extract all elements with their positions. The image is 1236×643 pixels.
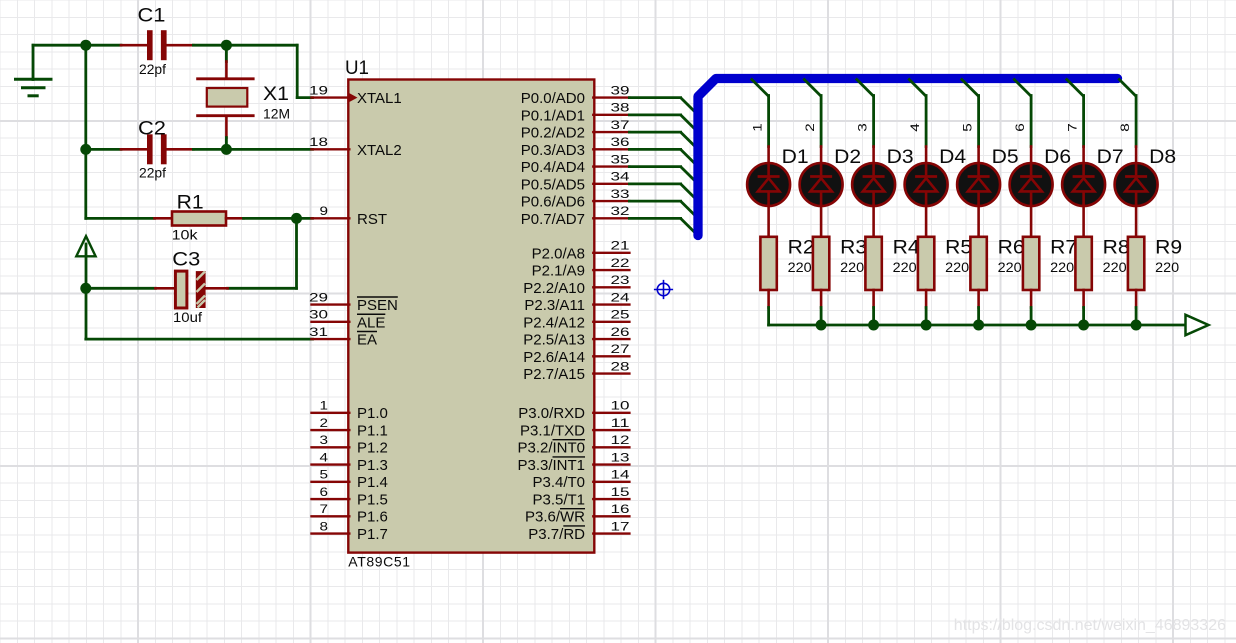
wire P0.5 to bus — [629, 184, 698, 201]
svg-text:19: 19 — [309, 83, 328, 97]
svg-text:P0.4/AD4: P0.4/AD4 — [521, 159, 585, 176]
pin 29 PSEN — [309, 290, 398, 314]
svg-text:2: 2 — [320, 416, 329, 430]
svg-text:P2.1/A9: P2.1/A9 — [532, 263, 585, 280]
svg-text:P1.2: P1.2 — [357, 440, 388, 457]
svg-text:220: 220 — [840, 259, 864, 275]
svg-text:220: 220 — [1155, 259, 1179, 275]
svg-text:1: 1 — [320, 399, 329, 413]
svg-text:10uf: 10uf — [173, 309, 202, 325]
wire bus branch to D2 — [803, 79, 821, 147]
svg-text:7: 7 — [320, 502, 329, 516]
wire node B down to XTAL1 pin — [297, 45, 312, 97]
svg-text:EA: EA — [357, 332, 377, 349]
bus (blue) — [698, 79, 1118, 236]
diode (LED) D1 — [747, 146, 809, 207]
svg-text:18: 18 — [309, 135, 328, 149]
pin 5 P1.4 — [312, 468, 388, 492]
wire rail to C2 — [86, 148, 147, 151]
svg-text:P2.4/A12: P2.4/A12 — [523, 314, 585, 331]
pin 36 P0.3/AD3 — [521, 135, 630, 159]
svg-text:D5: D5 — [992, 146, 1019, 168]
capacitor C3 10uf (electrolytic) — [172, 249, 205, 326]
wire left rail — [84, 45, 87, 218]
svg-text:P0.3/AD3: P0.3/AD3 — [521, 142, 585, 159]
pin 16 P3.6/WR — [525, 502, 630, 526]
wire C2 to XTAL2 pin — [167, 148, 313, 151]
svg-text:C3: C3 — [172, 249, 200, 271]
svg-text:R4: R4 — [893, 237, 920, 259]
wire P0.1 to bus — [629, 115, 698, 132]
svg-text:R8: R8 — [1103, 237, 1130, 259]
svg-text:26: 26 — [611, 325, 630, 339]
svg-text:D6: D6 — [1044, 146, 1071, 168]
svg-text:P2.7/A15: P2.7/A15 — [523, 366, 585, 383]
wire P0.7 to bus — [629, 218, 698, 235]
pin 27 P2.6/A14 — [523, 342, 630, 366]
svg-text:P0.1/AD1: P0.1/AD1 — [521, 107, 585, 124]
svg-text:31: 31 — [309, 325, 328, 339]
wire R9 to rail — [1135, 290, 1138, 325]
op-amp U1 AT89C51 microcontroller body — [345, 57, 594, 570]
svg-text:RST: RST — [357, 211, 387, 228]
svg-text:10k: 10k — [172, 227, 199, 243]
svg-text:1: 1 — [751, 123, 765, 132]
diode (LED) D2 — [800, 146, 862, 207]
diode (LED) D8 — [1115, 146, 1177, 207]
svg-text:C2: C2 — [138, 118, 166, 140]
svg-text:P3.5/T1: P3.5/T1 — [532, 491, 585, 508]
junction rail/D5 column — [973, 320, 984, 331]
junction RST node — [291, 213, 302, 224]
pin 12 P3.2/INT0 — [517, 433, 629, 457]
wire bus branch to D8 — [1118, 79, 1136, 147]
resistor R8 220 — [1075, 237, 1129, 291]
wire ground to C1 — [33, 44, 147, 47]
junction C3/power rail — [80, 283, 91, 294]
svg-text:AT89C51: AT89C51 — [348, 554, 410, 570]
pin 3 P1.2 — [312, 433, 388, 457]
wire P0.0 to bus — [629, 98, 698, 115]
svg-text:D4: D4 — [939, 146, 966, 168]
resistor R7 220 — [1023, 237, 1077, 291]
wire bus branch to D5 — [961, 79, 979, 147]
pin 17 P3.7/RD — [528, 519, 630, 543]
crystal X1 12M — [198, 45, 290, 149]
svg-text:6: 6 — [1013, 123, 1027, 132]
diode (LED) D6 — [1010, 146, 1072, 207]
svg-text:https://blog.csdn.net/weixin_4: https://blog.csdn.net/weixin_46893326 — [954, 617, 1226, 634]
svg-text:220: 220 — [1103, 259, 1127, 275]
wire D8 to R9 — [1135, 205, 1138, 238]
svg-text:220: 220 — [788, 259, 812, 275]
svg-text:220: 220 — [998, 259, 1022, 275]
svg-text:15: 15 — [611, 485, 630, 499]
svg-text:28: 28 — [611, 359, 630, 373]
wire D4 to R5 — [925, 205, 928, 238]
wire bus branch to D6 — [1013, 79, 1031, 147]
wire R3 to rail — [820, 290, 823, 325]
junction rail/D7 column — [1078, 320, 1089, 331]
svg-text:P0.0/AD0: P0.0/AD0 — [521, 90, 585, 107]
svg-text:12M: 12M — [263, 106, 290, 122]
svg-text:14: 14 — [611, 468, 630, 482]
wire D6 to R7 — [1030, 205, 1033, 238]
svg-text:P2.0/A8: P2.0/A8 — [532, 245, 585, 262]
capacitor C2 — [138, 118, 167, 181]
junction rail/D8 column — [1131, 320, 1142, 331]
svg-text:12: 12 — [611, 433, 630, 447]
pin 8 P1.7 — [312, 519, 388, 543]
pin 21 P2.0/A8 — [532, 239, 630, 263]
svg-text:10: 10 — [611, 399, 630, 413]
svg-text:7: 7 — [1066, 123, 1080, 132]
pin 19 XTAL1 — [309, 83, 402, 107]
wire P0.6 to bus — [629, 201, 698, 218]
svg-text:P1.4: P1.4 — [357, 474, 388, 491]
svg-text:30: 30 — [309, 308, 328, 322]
wire RST node down to C3 — [207, 218, 297, 288]
svg-text:XTAL1: XTAL1 — [357, 90, 402, 107]
pin 26 P2.5/A13 — [523, 325, 630, 349]
pin 6 P1.5 — [312, 485, 388, 509]
capacitor C1 — [138, 5, 167, 78]
diode (LED) D4 — [905, 146, 967, 207]
junction rail/C2 — [80, 144, 91, 155]
wire R4 to rail — [872, 290, 875, 325]
svg-text:P3.3/INT1: P3.3/INT1 — [517, 457, 585, 474]
resistor R9 220 — [1128, 237, 1182, 291]
wire bottom rail — [769, 324, 1185, 327]
pin 9 RST — [312, 204, 388, 228]
svg-text:C1: C1 — [138, 5, 166, 27]
svg-text:P2.2/A10: P2.2/A10 — [523, 280, 585, 297]
svg-text:P0.5/AD5: P0.5/AD5 — [521, 176, 585, 193]
svg-text:21: 21 — [611, 239, 630, 253]
wire VCC to EA pin — [86, 338, 313, 341]
pin 34 P0.5/AD5 — [521, 170, 630, 194]
pin 22 P2.1/A9 — [532, 256, 630, 280]
svg-text:25: 25 — [611, 308, 630, 322]
svg-text:39: 39 — [611, 83, 630, 97]
svg-text:PSEN: PSEN — [357, 297, 398, 314]
resistor R1 10k — [172, 192, 226, 243]
wire D1 to R2 — [767, 205, 770, 238]
junction crystal bottom — [221, 144, 232, 155]
svg-text:9: 9 — [320, 204, 329, 218]
svg-text:P3.0/RXD: P3.0/RXD — [518, 405, 585, 422]
pin 1 P1.0 — [312, 399, 388, 423]
pin 37 P0.2/AD2 — [521, 118, 630, 142]
svg-text:23: 23 — [611, 273, 630, 287]
pin 31 EA — [309, 325, 377, 349]
svg-text:P0.2/AD2: P0.2/AD2 — [521, 125, 585, 142]
svg-text:22pf: 22pf — [139, 165, 166, 181]
wire D5 to R6 — [977, 205, 980, 238]
svg-text:22: 22 — [611, 256, 630, 270]
svg-text:35: 35 — [611, 152, 630, 166]
node A junction — [80, 40, 91, 51]
svg-text:R1: R1 — [177, 192, 204, 214]
wire P0.4 to bus — [629, 167, 698, 184]
svg-text:8: 8 — [1118, 123, 1132, 132]
wire rail to R1 — [86, 217, 172, 220]
node B junction (crystal top) — [221, 40, 232, 51]
diode (LED) D3 — [852, 146, 914, 207]
diode (LED) D7 — [1062, 146, 1124, 207]
wire bus branch to D7 — [1066, 79, 1084, 147]
svg-text:R3: R3 — [840, 237, 867, 259]
pin 4 P1.3 — [312, 450, 388, 474]
svg-text:29: 29 — [309, 290, 328, 304]
resistor R5 220 — [918, 237, 972, 291]
svg-text:5: 5 — [961, 123, 975, 132]
svg-text:8: 8 — [320, 519, 329, 533]
wire R2 to rail — [767, 290, 770, 325]
pin 18 XTAL2 — [309, 135, 402, 159]
ground — [16, 45, 52, 96]
pin 32 P0.7/AD7 — [521, 204, 630, 228]
wire D7 to R8 — [1082, 205, 1085, 238]
svg-text:38: 38 — [611, 101, 630, 115]
pin 15 P3.5/T1 — [532, 485, 629, 509]
junction rail/D6 column — [1026, 320, 1037, 331]
svg-text:P1.1: P1.1 — [357, 422, 388, 439]
wire C1 to node B — [167, 44, 298, 47]
svg-text:R6: R6 — [998, 237, 1025, 259]
resistor R3 220 — [813, 237, 867, 291]
svg-text:D8: D8 — [1149, 146, 1176, 168]
wire D2 to R3 — [820, 205, 823, 238]
wire R7 to rail — [1030, 290, 1033, 325]
svg-text:6: 6 — [320, 485, 329, 499]
junction rail/D2 column — [816, 320, 827, 331]
origin marker (crosshair) — [654, 280, 673, 299]
pin 39 P0.0/AD0 — [521, 83, 630, 107]
svg-text:P0.7/AD7: P0.7/AD7 — [521, 211, 585, 228]
pin 25 P2.4/A12 — [523, 308, 630, 332]
pin 2 P1.1 — [312, 416, 388, 440]
wire bus branch to D4 — [908, 79, 926, 147]
svg-text:P3.1/TXD: P3.1/TXD — [520, 422, 585, 439]
pin 11 P3.1/TXD — [520, 416, 630, 440]
pin 23 P2.2/A10 — [523, 273, 630, 297]
wire D3 to R4 — [872, 205, 875, 238]
wire R6 to rail — [977, 290, 980, 325]
svg-text:4: 4 — [908, 123, 922, 132]
pin 35 P0.4/AD4 — [521, 152, 630, 176]
svg-text:P2.3/A11: P2.3/A11 — [524, 297, 585, 314]
svg-text:37: 37 — [611, 118, 630, 132]
junction rail/D4 column — [921, 320, 932, 331]
wire power rail to C3 — [86, 287, 176, 290]
svg-text:13: 13 — [611, 450, 630, 464]
svg-text:36: 36 — [611, 135, 630, 149]
svg-text:XTAL2: XTAL2 — [357, 142, 402, 159]
svg-text:P0.6/AD6: P0.6/AD6 — [521, 194, 585, 211]
svg-text:P1.6: P1.6 — [357, 509, 388, 526]
svg-text:D7: D7 — [1097, 146, 1124, 168]
wire P0.2 to bus — [629, 132, 698, 149]
svg-text:D2: D2 — [834, 146, 861, 168]
rail output arrow — [1186, 315, 1209, 335]
svg-text:3: 3 — [320, 433, 329, 447]
wire R1 to RST pin — [226, 217, 313, 220]
svg-text:4: 4 — [320, 450, 329, 464]
pin 24 P2.3/A11 — [524, 290, 630, 314]
svg-text:D1: D1 — [782, 146, 809, 168]
svg-text:27: 27 — [611, 342, 630, 356]
svg-text:P2.5/A13: P2.5/A13 — [523, 332, 585, 349]
svg-text:ALE: ALE — [357, 314, 385, 331]
svg-text:34: 34 — [611, 170, 630, 184]
pin 10 P3.0/RXD — [518, 399, 630, 423]
pin 33 P0.6/AD6 — [521, 187, 630, 211]
svg-text:P3.7/RD: P3.7/RD — [528, 526, 585, 543]
svg-text:5: 5 — [320, 468, 329, 482]
svg-text:33: 33 — [611, 187, 630, 201]
pin 7 P1.6 — [312, 502, 388, 526]
svg-text:P3.6/WR: P3.6/WR — [525, 509, 585, 526]
junction rail/D3 column — [868, 320, 879, 331]
pin 14 P3.4/T0 — [532, 468, 629, 492]
svg-text:P1.0: P1.0 — [357, 405, 388, 422]
pin 13 P3.3/INT1 — [517, 450, 629, 474]
svg-text:220: 220 — [1050, 259, 1074, 275]
svg-text:16: 16 — [611, 502, 630, 516]
svg-text:P1.7: P1.7 — [357, 526, 388, 543]
pin 28 P2.7/A15 — [523, 359, 630, 383]
power VCC arrow — [76, 236, 95, 339]
resistor R2 220 — [760, 237, 814, 291]
svg-text:D3: D3 — [887, 146, 914, 168]
pin 38 P0.1/AD1 — [521, 101, 630, 125]
svg-text:P1.5: P1.5 — [357, 491, 388, 508]
svg-text:11: 11 — [611, 416, 630, 430]
wire R5 to rail — [925, 290, 928, 325]
wire bus branch to D3 — [856, 79, 874, 147]
wire P0.3 to bus — [629, 149, 698, 166]
svg-text:3: 3 — [856, 123, 870, 132]
svg-text:P3.4/T0: P3.4/T0 — [532, 474, 585, 491]
svg-text:P1.3: P1.3 — [357, 457, 388, 474]
resistor R4 220 — [865, 237, 919, 291]
svg-text:R5: R5 — [945, 237, 972, 259]
svg-text:17: 17 — [611, 519, 630, 533]
svg-text:R9: R9 — [1155, 237, 1182, 259]
pin 30 ALE — [309, 308, 385, 332]
svg-text:R7: R7 — [1050, 237, 1077, 259]
svg-text:X1: X1 — [263, 83, 289, 105]
svg-text:24: 24 — [611, 290, 630, 304]
svg-text:220: 220 — [945, 259, 969, 275]
wire R8 to rail — [1082, 290, 1085, 325]
svg-text:P2.6/A14: P2.6/A14 — [523, 349, 585, 366]
svg-text:U1: U1 — [345, 57, 369, 79]
svg-text:32: 32 — [611, 204, 630, 218]
wire bus branch to D1 — [751, 79, 769, 147]
svg-text:220: 220 — [893, 259, 917, 275]
svg-text:R2: R2 — [788, 237, 815, 259]
svg-text:P3.2/INT0: P3.2/INT0 — [517, 440, 585, 457]
resistor R6 220 — [970, 237, 1024, 291]
svg-text:2: 2 — [803, 123, 817, 132]
diode (LED) D5 — [957, 146, 1019, 207]
svg-text:22pf: 22pf — [139, 61, 166, 77]
